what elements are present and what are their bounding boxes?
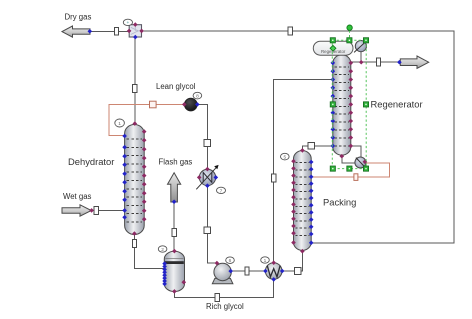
regenerator vent arrow: [400, 56, 428, 68]
port dots dehydrator left blue: [122, 134, 127, 220]
packing label bubble: [281, 153, 290, 160]
port dot vent arrow: [397, 60, 402, 65]
port dot flash gas arrow: [172, 200, 177, 205]
stream box on mixer drop: [133, 85, 137, 93]
flash drum separator: [164, 251, 184, 291]
dry gas outlet arrow: [62, 26, 90, 37]
wire dry gas line: [90, 30, 129, 32]
port dots flash drum maroon: [172, 249, 186, 294]
wire recycle block to cooler to pump inlet: [197, 104, 217, 263]
port dots regenerator right maroon: [349, 61, 354, 149]
stream box on rich glycol line: [215, 294, 219, 302]
energy stream box red near reboiler: [354, 174, 358, 181]
recycle label bubble: [193, 92, 202, 99]
column Regenerator body: [333, 55, 351, 155]
recycle block dark circle: [185, 98, 198, 111]
wire flash drum bottom rich glycol to exchanger bottom: [174, 280, 273, 298]
svg-text:Flash gas: Flash gas: [159, 158, 193, 167]
junction dot overhead line: [359, 60, 364, 65]
selection handle top-mid: [347, 38, 352, 43]
stream box square on packing top line: [308, 143, 315, 150]
wet gas feed arrow: [62, 205, 91, 216]
stream box on overhead vent line: [376, 58, 380, 66]
port dots packing top bottom maroon: [300, 148, 305, 253]
wire flash drum top to flash gas arrow: [173, 202, 175, 251]
wire long recycle loop mixer to packing column right: [142, 31, 455, 243]
port dot reboiler right: [363, 160, 368, 165]
wire mixer to dehydrator top: [134, 37, 136, 123]
wire energy red loop dehydrator to recycle cooler: [109, 104, 184, 135]
wire regenerator side port to reboiler top: [351, 146, 361, 157]
stream box on dehydrator bottom line: [132, 240, 136, 248]
stream box on flash gas line: [172, 229, 176, 237]
port dot dry gas arrow: [88, 29, 93, 34]
port dots regenerator left blue: [331, 61, 336, 149]
port dots packing right blue: [309, 160, 314, 245]
stream box on recycle loop: [288, 27, 292, 35]
svg-text:Dehydrator: Dehydrator: [68, 156, 114, 167]
selection handle top-right: [363, 38, 368, 43]
selection handle bottom-left: [330, 166, 335, 171]
stream box square on cooler line upper: [204, 140, 211, 147]
dehydrator label bubble: [115, 119, 125, 127]
heat exchanger W: [265, 263, 282, 280]
stream box on wet gas line: [94, 207, 98, 215]
svg-text:Wet gas: Wet gas: [63, 192, 92, 201]
port dot mixer bottom blue: [133, 35, 138, 40]
svg-text:Rich glycol: Rich glycol: [206, 302, 244, 311]
wire dehydrator bottom to flash drum: [134, 234, 164, 269]
stream box S1 on dry gas line: [115, 27, 119, 35]
condenser circle: [354, 41, 367, 53]
svg-text:+: +: [126, 21, 129, 26]
selection green diamond on accumulator: [330, 45, 336, 51]
selection handle bottom-mid: [347, 166, 352, 171]
stream box on pump outlet: [245, 267, 249, 275]
svg-text:Regenerator: Regenerator: [371, 99, 423, 110]
port dots dehydrator right maroon: [142, 129, 147, 221]
stream box on exchanger top line: [272, 174, 276, 182]
port dots exchanger: [271, 260, 276, 265]
port dots pump: [215, 261, 220, 266]
wire wet gas line: [98, 209, 124, 211]
wire exchanger top to regenerator feed: [274, 80, 333, 263]
exchanger label bubble: [261, 257, 270, 263]
column Dehydrator: [125, 125, 145, 235]
svg-text:Lean glycol: Lean glycol: [156, 82, 196, 91]
port dot regenerator bottom: [340, 154, 345, 159]
stream box square on cooler line lower: [204, 227, 211, 234]
svg-text:5: 5: [283, 155, 286, 161]
valve label bubble: [217, 187, 226, 193]
wire regenerator bottom to reboiler left: [342, 156, 355, 163]
svg-text:Dry gas: Dry gas: [65, 12, 92, 21]
port dots mixer: [127, 22, 144, 33]
valve cooler with arrow: [196, 165, 218, 189]
flash drum label bubble: [158, 246, 167, 252]
port dots dehydrator top and bottom: [132, 121, 137, 236]
wire pump outlet to exchanger left: [231, 270, 266, 272]
svg-text:2: 2: [161, 247, 164, 253]
wire packing column top to regenerator bottom port: [302, 146, 332, 151]
mixer label bubble: [123, 19, 132, 25]
port dots recycle block: [182, 102, 187, 107]
flash gas arrow: [168, 173, 181, 202]
pump label bubble: [226, 257, 235, 264]
port dots valve cooler: [197, 167, 210, 180]
column Packing absorber: [294, 151, 312, 251]
selection handle top-left: [330, 38, 335, 43]
mixer MIX-1: [129, 25, 141, 37]
port dot wet gas arrow: [89, 208, 94, 213]
selection rotation handle green circle: [347, 25, 352, 30]
svg-text:8: 8: [196, 94, 199, 100]
svg-text:1: 1: [118, 121, 121, 127]
svg-text:6: 6: [229, 258, 232, 264]
energy stream box red near recycle cooler: [150, 101, 157, 108]
regenerator accumulator drum: [313, 41, 353, 55]
wire exchanger right to packing column bottom: [282, 251, 302, 271]
port dots flash drum left blue stack: [162, 261, 167, 286]
selection handle mid-right: [363, 102, 368, 107]
svg-text:Packing: Packing: [323, 196, 356, 207]
svg-text:7: 7: [220, 188, 223, 194]
selection handle mid-left: [330, 102, 335, 107]
selection dashed box regenerator: [332, 31, 366, 169]
port dots packing left maroon: [291, 159, 296, 245]
wire condenser drop: [360, 52, 362, 63]
wire energy red loop reboiler to packing side: [311, 163, 389, 177]
wire regenerator overhead line: [351, 61, 399, 63]
pump P-1: [212, 263, 233, 284]
stream box square on exchanger right line: [295, 268, 302, 275]
svg-text:1: 1: [264, 258, 267, 264]
selection handle bottom-right: [363, 166, 368, 171]
reboiler circle: [355, 157, 366, 168]
